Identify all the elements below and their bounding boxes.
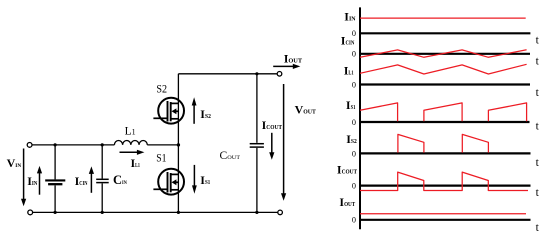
- svg-text:S1: S1: [156, 152, 166, 164]
- svg-text:0: 0: [352, 118, 356, 127]
- svg-text:S2: S2: [156, 83, 167, 95]
- svg-text:L1: L1: [125, 125, 136, 137]
- svg-text:0: 0: [352, 149, 356, 158]
- svg-text:0: 0: [352, 50, 356, 59]
- svg-text:0: 0: [352, 29, 356, 38]
- svg-text:0: 0: [352, 216, 356, 225]
- svg-text:0: 0: [352, 182, 356, 191]
- svg-text:0: 0: [352, 80, 356, 89]
